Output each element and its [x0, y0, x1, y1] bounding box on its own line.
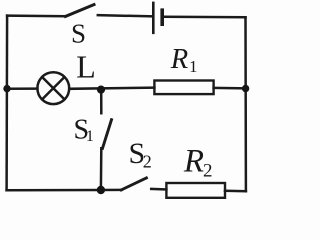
svg-text:2: 2 — [143, 152, 152, 172]
svg-text:R: R — [170, 44, 188, 75]
wire: top-left segment (corner to switch S pivot) — [7, 14, 65, 17]
wire: center vertical, junction to switch S1 contact — [100, 90, 103, 114]
wire: right edge (top-right corner to bottom-right corner) — [244, 17, 247, 191]
resistor R2 body — [166, 183, 225, 198]
battery positive plate (long) — [152, 3, 155, 33]
wire: left edge (top-left corner to bottom-left corner) — [5, 16, 8, 191]
lamp L (circle with X) — [37, 72, 69, 104]
wire: lamp to resistor R1 — [69, 88, 154, 89]
node: junction dot on right edge — [242, 85, 249, 92]
node: junction dot at lamp/branch tee — [97, 86, 105, 94]
node: junction dot on left edge — [3, 85, 10, 92]
node: junction dot at bottom tee — [97, 186, 105, 194]
wire: resistor R1 to right edge — [214, 87, 246, 90]
wire: middle branch, left edge dot to lamp — [7, 87, 38, 90]
wire: resistor R2 to bottom-right corner — [225, 190, 246, 193]
svg-text:S: S — [71, 18, 86, 48]
svg-text:R: R — [183, 144, 204, 180]
wire: bottom junction to switch S2 pivot — [101, 189, 121, 192]
switch S blade (open) — [66, 5, 95, 17]
wire: top segment between switch S and battery — [98, 15, 153, 16]
svg-text:1: 1 — [189, 57, 198, 76]
wire: bottom-left segment (corner to bottom junction) — [7, 189, 101, 192]
switch S2 blade (open) — [121, 178, 146, 190]
svg-text:L: L — [76, 49, 96, 85]
wire: center vertical, switch S1 to bottom junction — [100, 148, 103, 190]
svg-text:2: 2 — [203, 161, 213, 182]
resistor R1 body — [154, 81, 213, 95]
svg-text:1: 1 — [86, 128, 94, 145]
wire: top-right segment (battery to top-right corner) — [164, 15, 246, 18]
switch S1 blade (open) — [103, 120, 112, 149]
battery negative plate (short) — [160, 10, 164, 24]
wire: switch S2 contact to resistor R2 — [151, 188, 166, 191]
